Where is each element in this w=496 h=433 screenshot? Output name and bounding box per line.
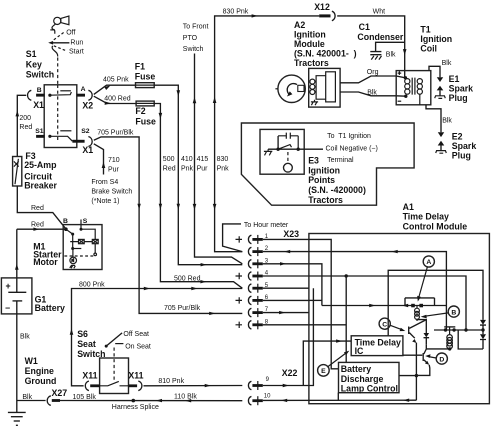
svg-text:500 Red: 500 Red: [174, 275, 201, 282]
terminal S: [80, 220, 82, 230]
svg-text:Time Delay: Time Delay: [403, 212, 449, 222]
relay contact line: [434, 329, 483, 331]
wire 405 Pnk to F1: [94, 85, 136, 94]
svg-text:Switch: Switch: [183, 46, 204, 53]
connector X1 (S2, right side of key switch): [88, 137, 92, 147]
A1 module enclosure: [309, 234, 490, 404]
X23 pin 7: [248, 308, 251, 317]
svg-text:105 Blk: 105 Blk: [73, 394, 97, 401]
coil B (sense winding): [416, 306, 418, 309]
transistor Q2: [422, 353, 424, 361]
spark plug E2: [426, 105, 441, 133]
svg-text:Red: Red: [31, 221, 44, 228]
svg-text:Tractors: Tractors: [294, 58, 329, 68]
svg-text:Coil: Coil: [420, 44, 437, 54]
svg-text:Fuse: Fuse: [135, 71, 156, 81]
svg-text:Battery: Battery: [341, 364, 371, 374]
svg-text:(S.N. -420000): (S.N. -420000): [308, 185, 366, 195]
svg-text:Blk: Blk: [22, 394, 32, 401]
svg-text:Discharge: Discharge: [341, 374, 384, 384]
connector X1 left: [28, 90, 32, 100]
circuit breaker F3: [13, 157, 22, 187]
svg-text:X11: X11: [128, 370, 143, 380]
svg-text:IC: IC: [355, 346, 364, 356]
terminal B: [36, 94, 45, 97]
svg-text:Ignition: Ignition: [308, 165, 340, 175]
diode CR2: [480, 334, 486, 339]
svg-text:X1: X1: [33, 100, 44, 110]
node B (starter): [64, 227, 68, 231]
svg-text:A1: A1: [403, 202, 414, 212]
svg-text:X12: X12: [314, 2, 330, 12]
svg-text:Ignition: Ignition: [420, 34, 452, 44]
callout A: [423, 256, 434, 267]
harness splice node: [132, 399, 136, 403]
svg-text:B: B: [37, 87, 42, 94]
svg-text:Red: Red: [19, 124, 32, 131]
wire battery+ to starter B (Red): [17, 229, 66, 278]
svg-text:B: B: [451, 309, 456, 316]
spark plug E1: [429, 66, 440, 77]
svg-text:Blk: Blk: [442, 117, 452, 124]
svg-text:705 Pur/Blk: 705 Pur/Blk: [164, 305, 201, 312]
relay return rail: [458, 330, 483, 349]
svg-text:Seat: Seat: [77, 339, 96, 349]
seat switch S6 body: [100, 358, 129, 394]
E3 points inner box: [260, 129, 304, 174]
svg-text:Points: Points: [308, 175, 335, 185]
svg-text:Key: Key: [26, 60, 42, 70]
svg-text:A: A: [426, 259, 431, 266]
svg-text:X2: X2: [82, 101, 93, 111]
svg-text:Control Module: Control Module: [403, 222, 468, 232]
callout E: [318, 365, 330, 377]
svg-text:From S4: From S4: [91, 179, 118, 186]
svg-text:X27: X27: [52, 388, 68, 398]
svg-text:830: 830: [217, 156, 229, 163]
svg-text:E3: E3: [308, 156, 319, 166]
svg-text:Fuse: Fuse: [135, 117, 156, 127]
diode CR3: [417, 320, 426, 333]
svg-text:A: A: [81, 86, 86, 93]
wire Wht from X12 to coil: [337, 16, 405, 78]
relay coil K1: [449, 330, 451, 335]
wire 810 Pnk to X22 pin 9: [144, 385, 243, 387]
transistor Q1: [408, 327, 410, 335]
callout D: [436, 353, 447, 364]
ground symbol W1: [8, 412, 26, 425]
net IC supply rail to diodes: [388, 270, 483, 336]
svg-text:Condenser: Condenser: [357, 32, 404, 42]
svg-text:Plug: Plug: [452, 150, 471, 160]
svg-text:Breaker: Breaker: [24, 180, 57, 190]
svg-text:200: 200: [19, 115, 31, 122]
svg-text:D: D: [439, 356, 444, 363]
svg-text:Off: Off: [66, 30, 75, 37]
svg-text:(*Note 1): (*Note 1): [91, 198, 119, 205]
net pin4 to relay contact right: [309, 276, 466, 330]
svg-text:F2: F2: [135, 106, 145, 116]
battery G1: [1, 278, 32, 314]
svg-text:705 Pur/Blk: 705 Pur/Blk: [97, 129, 134, 136]
Time Delay IC box: [351, 336, 403, 356]
key switch positions Off/Run/Start: [52, 42, 70, 44]
net pin1 to battery discharge lamp control: [309, 239, 339, 368]
svg-text:110 Blk: 110 Blk: [174, 394, 197, 401]
E3 cam: [287, 152, 289, 163]
switch S1 body: [44, 85, 77, 148]
svg-text:Coil Negative (−): Coil Negative (−): [326, 146, 378, 153]
wire F1 out / 410 Pnk vertical: [154, 85, 242, 265]
svg-text:+: +: [6, 281, 11, 291]
svg-text:W1: W1: [25, 356, 38, 366]
X23 pin 6: [236, 297, 243, 303]
To Hour meter bracket to pin 2: [223, 224, 243, 252]
svg-text:500: 500: [163, 156, 175, 163]
svg-text:Blk: Blk: [367, 90, 377, 97]
svg-text:Pnk: Pnk: [217, 166, 230, 173]
svg-text:X23: X23: [283, 229, 299, 239]
callout C: [379, 318, 390, 329]
starter motor M1 box: [63, 225, 102, 270]
A2 flywheel: [278, 75, 305, 102]
svg-text:Wht: Wht: [373, 8, 386, 15]
svg-text:On Seat: On Seat: [125, 343, 151, 350]
svg-text:Engine: Engine: [25, 366, 54, 376]
svg-text:410: 410: [181, 156, 193, 163]
bottom ground wire 105 Blk: [17, 400, 46, 402]
svg-text:Tractors: Tractors: [308, 195, 343, 205]
starter solenoid internals: [64, 228, 98, 269]
wire F3 to starter B (Red): [17, 186, 66, 229]
svg-text:800 Pnk: 800 Pnk: [79, 281, 105, 288]
svg-text:Blk: Blk: [20, 334, 30, 341]
svg-text:25-Amp: 25-Amp: [24, 160, 57, 170]
svg-text:Module: Module: [294, 39, 325, 49]
svg-text:Motor: Motor: [33, 257, 58, 267]
svg-text:To T1 Ignition: To T1 Ignition: [327, 133, 371, 140]
terminal S1: [36, 135, 45, 138]
wire 830 Pnk from X12 down to X23 pin 2: [215, 16, 320, 252]
wire 705 Pur/Blk from S2 to X23 pin 7: [94, 137, 243, 314]
E3 ground: [264, 149, 272, 155]
wire to harness splice: [60, 400, 242, 402]
net pin6 stub: [309, 299, 322, 301]
svg-text:Switch: Switch: [77, 349, 105, 359]
svg-text:Terminal: Terminal: [327, 157, 354, 164]
net pin2 to relay contact left: [309, 252, 447, 330]
svg-text:Ignition: Ignition: [294, 29, 326, 39]
X23 pin 1: [236, 236, 243, 242]
E3 ignition points enclosure: [241, 123, 414, 205]
net IC input from X22 pin 9 branch: [303, 341, 351, 385]
svg-text:S2: S2: [81, 128, 90, 135]
svg-text:Pur: Pur: [108, 167, 120, 174]
svg-text:S6: S6: [77, 329, 88, 339]
net lamp control ground: [337, 393, 339, 401]
svg-text:F1: F1: [135, 61, 145, 71]
E3 breaker points: [276, 148, 279, 151]
wire pin 10 to module ground rail: [263, 399, 417, 401]
A2 ignition module body: [309, 68, 340, 107]
svg-text:Org: Org: [367, 69, 379, 76]
X23 pin 4: [236, 273, 243, 279]
svg-text:Lamp Control: Lamp Control: [341, 384, 398, 394]
svg-text:Red: Red: [163, 166, 176, 173]
svg-text:830 Pnk: 830 Pnk: [223, 9, 249, 16]
svg-text:−: −: [5, 303, 10, 313]
svg-text:Pnk: Pnk: [181, 166, 194, 173]
contact A assembly: [405, 298, 435, 306]
svg-text:400 Red: 400 Red: [104, 96, 131, 103]
X23 pin 3: [248, 260, 251, 269]
svg-text:S1: S1: [35, 128, 44, 135]
X22 pin 9: [248, 381, 251, 390]
svg-text:10: 10: [264, 393, 271, 399]
terminal A: [76, 94, 85, 97]
svg-text:Harness Splice: Harness Splice: [112, 404, 159, 411]
terminal S2: [72, 140, 84, 143]
wire 800 Pnk (battery area to X23 pin 5 and seat switch): [72, 289, 243, 386]
net junction vertical to battery box: [345, 276, 347, 362]
ignition coil T1: [396, 71, 431, 105]
svg-text:Pur: Pur: [197, 166, 209, 173]
svg-text:405 Pnk: 405 Pnk: [103, 77, 129, 84]
svg-text:Battery: Battery: [35, 303, 65, 313]
E3 condenser: [286, 133, 290, 139]
X22 pin 10: [248, 396, 251, 405]
X23 pin 5: [248, 284, 251, 293]
key icon: [50, 16, 69, 34]
svg-text:Start: Start: [69, 49, 84, 56]
svg-text:T1: T1: [420, 24, 430, 34]
svg-text:Run: Run: [70, 39, 83, 46]
Battery Discharge Lamp Control box: [339, 362, 400, 392]
seat switch lever Off/On: [105, 345, 108, 348]
X23 pin 8: [236, 322, 243, 328]
wire 400 Red to F2: [94, 96, 136, 103]
svg-text:Blk: Blk: [442, 60, 452, 67]
contact S1-S2: [48, 135, 51, 138]
svg-text:710: 710: [108, 157, 120, 164]
svg-text:415: 415: [197, 156, 209, 163]
svg-text:Switch: Switch: [26, 70, 54, 80]
svg-text:Ground: Ground: [25, 376, 57, 386]
wire F2 out / 500 Red vertical: [154, 104, 242, 289]
net pin8 stub: [309, 324, 346, 326]
svg-text:X22: X22: [282, 368, 298, 378]
diode CR1: [480, 320, 486, 325]
svg-text:S1: S1: [26, 49, 37, 59]
net Q2 emitter to ground junction: [416, 365, 429, 376]
connector X2: [88, 90, 92, 100]
svg-text:E: E: [321, 368, 326, 375]
svg-text:X1: X1: [82, 145, 93, 155]
X23 pin 2: [248, 247, 251, 256]
svg-text:C1: C1: [359, 22, 370, 32]
wire 710 Pur to brake switch: [94, 144, 104, 175]
svg-text:X11: X11: [82, 370, 97, 380]
svg-text:Brake Switch: Brake Switch: [91, 189, 132, 196]
svg-text:C: C: [382, 321, 387, 328]
svg-text:To Hour meter: To Hour meter: [244, 222, 289, 229]
svg-text:Plug: Plug: [449, 93, 468, 103]
svg-text:Off Seat: Off Seat: [123, 331, 149, 338]
wire battery- to ground (Blk): [16, 314, 18, 413]
callout B: [448, 306, 459, 317]
svg-text:PTO: PTO: [183, 35, 198, 42]
svg-text:Red: Red: [31, 205, 44, 212]
connector X27: [47, 396, 51, 406]
wire pin 9 into module (joins pin 5 net): [263, 288, 314, 385]
contact B-A: [48, 94, 51, 97]
svg-text:To Front: To Front: [183, 24, 209, 31]
key shaft linkage (dashed): [52, 46, 58, 57]
net pin3 to contact A line: [309, 264, 322, 306]
110 Blk label and arrow: [156, 399, 162, 402]
svg-text:Blk: Blk: [386, 51, 396, 58]
net Q1 emitter down to ground rail: [415, 343, 417, 401]
svg-text:810 Pnk: 810 Pnk: [158, 378, 184, 385]
svg-text:B: B: [63, 218, 68, 225]
fuse F2: [136, 101, 154, 106]
wires Org and Blk from A2 to coil: [340, 76, 405, 83]
wire X1 to F3: [17, 95, 26, 156]
